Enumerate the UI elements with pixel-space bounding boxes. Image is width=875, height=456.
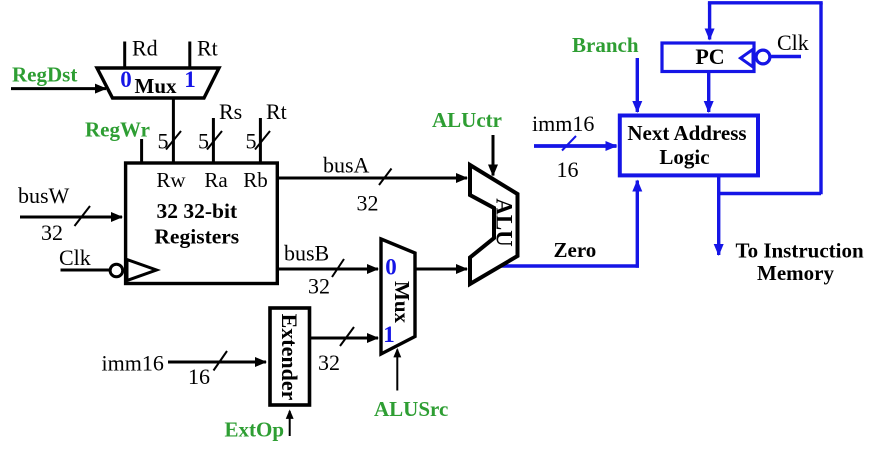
- svg-text:32: 32: [318, 350, 340, 375]
- svg-text:32: 32: [41, 220, 63, 245]
- wire imm16 into extender: [168, 361, 266, 364]
- svg-text:1: 1: [184, 67, 196, 92]
- clock edge triangle (PC): [741, 49, 754, 67]
- svg-text:Rb: Rb: [243, 168, 268, 192]
- svg-text:Memory: Memory: [757, 261, 834, 285]
- wire PC output to next address logic: [707, 72, 710, 113]
- wire extender output to mux M2: [309, 337, 378, 340]
- svg-text:Logic: Logic: [659, 145, 709, 169]
- mux M1 (RegDst mux): [97, 68, 219, 98]
- wire Zero vertical into next address logic: [636, 181, 639, 268]
- mux M2 (ALUSrc mux): [381, 239, 415, 354]
- svg-text:ALU: ALU: [492, 198, 517, 247]
- svg-text:Mux: Mux: [135, 74, 178, 98]
- svg-text:Rt: Rt: [266, 99, 287, 124]
- wire busW into registers: [20, 216, 122, 219]
- slash bus-width Rw: [166, 131, 181, 150]
- svg-text:RegWr: RegWr: [85, 118, 150, 142]
- svg-text:ALUctr: ALUctr: [432, 108, 502, 132]
- svg-text:PC: PC: [695, 44, 724, 69]
- svg-text:imm16: imm16: [102, 351, 164, 376]
- svg-text:Rs: Rs: [219, 99, 242, 124]
- svg-text:32: 32: [357, 191, 379, 216]
- wire Clk to PC: [771, 55, 802, 58]
- wire ExtOp into extender: [289, 411, 291, 436]
- svg-text:To Instruction: To Instruction: [736, 239, 864, 263]
- svg-text:Rw: Rw: [156, 168, 186, 192]
- wire RegWr into registers: [140, 139, 143, 163]
- svg-text:0: 0: [385, 255, 397, 280]
- wire Zero from ALU horizontal: [494, 264, 639, 267]
- slash bus-width Rb: [255, 131, 270, 150]
- svg-text:16: 16: [557, 157, 579, 182]
- svg-text:32 32-bit: 32 32-bit: [156, 199, 237, 223]
- wire junction to feedback: [719, 192, 821, 195]
- svg-text:ExtOp: ExtOp: [225, 418, 285, 442]
- svg-text:busW: busW: [18, 183, 70, 208]
- svg-text:Clk: Clk: [59, 245, 91, 270]
- extender block: [270, 308, 310, 405]
- svg-text:0: 0: [120, 67, 132, 92]
- slash bus-width Ra: [207, 131, 222, 150]
- svg-text:5: 5: [246, 129, 257, 154]
- svg-text:Branch: Branch: [572, 33, 639, 57]
- wire RegDst select into mux M1: [11, 87, 106, 90]
- slash bus-width busA: [379, 169, 392, 186]
- wire feedback top horizontal: [708, 1, 823, 4]
- svg-text:Extender: Extender: [277, 314, 302, 401]
- svg-text:Next Address: Next Address: [627, 121, 746, 145]
- slash bus-width imm16: [214, 351, 228, 371]
- clock bubble (registers): [110, 264, 123, 277]
- wire ALUctr into ALU: [492, 135, 495, 176]
- wire busB to mux M2: [277, 268, 378, 271]
- wire Rt input to Rb: [259, 118, 262, 163]
- slash bus-width busW: [75, 206, 91, 226]
- wire Clk to registers: [61, 269, 111, 272]
- svg-text:imm16: imm16: [532, 111, 594, 136]
- wire Rd input to mux: [123, 42, 126, 69]
- svg-text:RegDst: RegDst: [12, 63, 77, 87]
- wire Rs input: [212, 118, 215, 163]
- svg-text:Mux: Mux: [390, 281, 414, 324]
- svg-text:busB: busB: [284, 241, 329, 266]
- svg-text:Rt: Rt: [197, 36, 218, 61]
- wire Branch into next address logic: [636, 58, 639, 112]
- ALU: [470, 165, 518, 284]
- svg-text:16: 16: [188, 364, 210, 389]
- wire feedback right vertical: [819, 3, 822, 195]
- slash bus-width extender out: [340, 327, 354, 346]
- svg-text:1: 1: [383, 322, 395, 347]
- slash bus-width busB: [332, 259, 344, 277]
- svg-text:Ra: Ra: [204, 168, 228, 192]
- wire next address logic output down: [717, 175, 720, 255]
- wire mux M2 output to ALU: [415, 268, 467, 271]
- PC register box: [662, 43, 754, 72]
- register file block: [126, 163, 278, 284]
- wire ALUSrc select into mux M2: [396, 350, 398, 391]
- clock edge triangle (registers): [127, 260, 157, 281]
- svg-text:Registers: Registers: [154, 225, 239, 249]
- svg-text:Rd: Rd: [132, 36, 158, 61]
- svg-text:32: 32: [308, 274, 330, 299]
- svg-text:5: 5: [198, 129, 209, 154]
- wire mux M1 output to Rw: [172, 98, 175, 163]
- wire busA to ALU: [277, 177, 467, 180]
- svg-text:Clk: Clk: [777, 30, 809, 55]
- wire Rt input to mux: [188, 42, 191, 69]
- clock bubble (PC): [756, 50, 770, 64]
- svg-text:busA: busA: [323, 153, 370, 178]
- svg-text:ALUSrc: ALUSrc: [374, 397, 448, 421]
- wire imm16 into next address logic: [534, 144, 617, 148]
- wire feedback into PC top: [708, 3, 711, 40]
- svg-text:Zero: Zero: [554, 238, 597, 262]
- svg-text:5: 5: [158, 129, 169, 154]
- slash bus-width imm16 right: [562, 136, 576, 151]
- next address logic block: [620, 116, 758, 176]
